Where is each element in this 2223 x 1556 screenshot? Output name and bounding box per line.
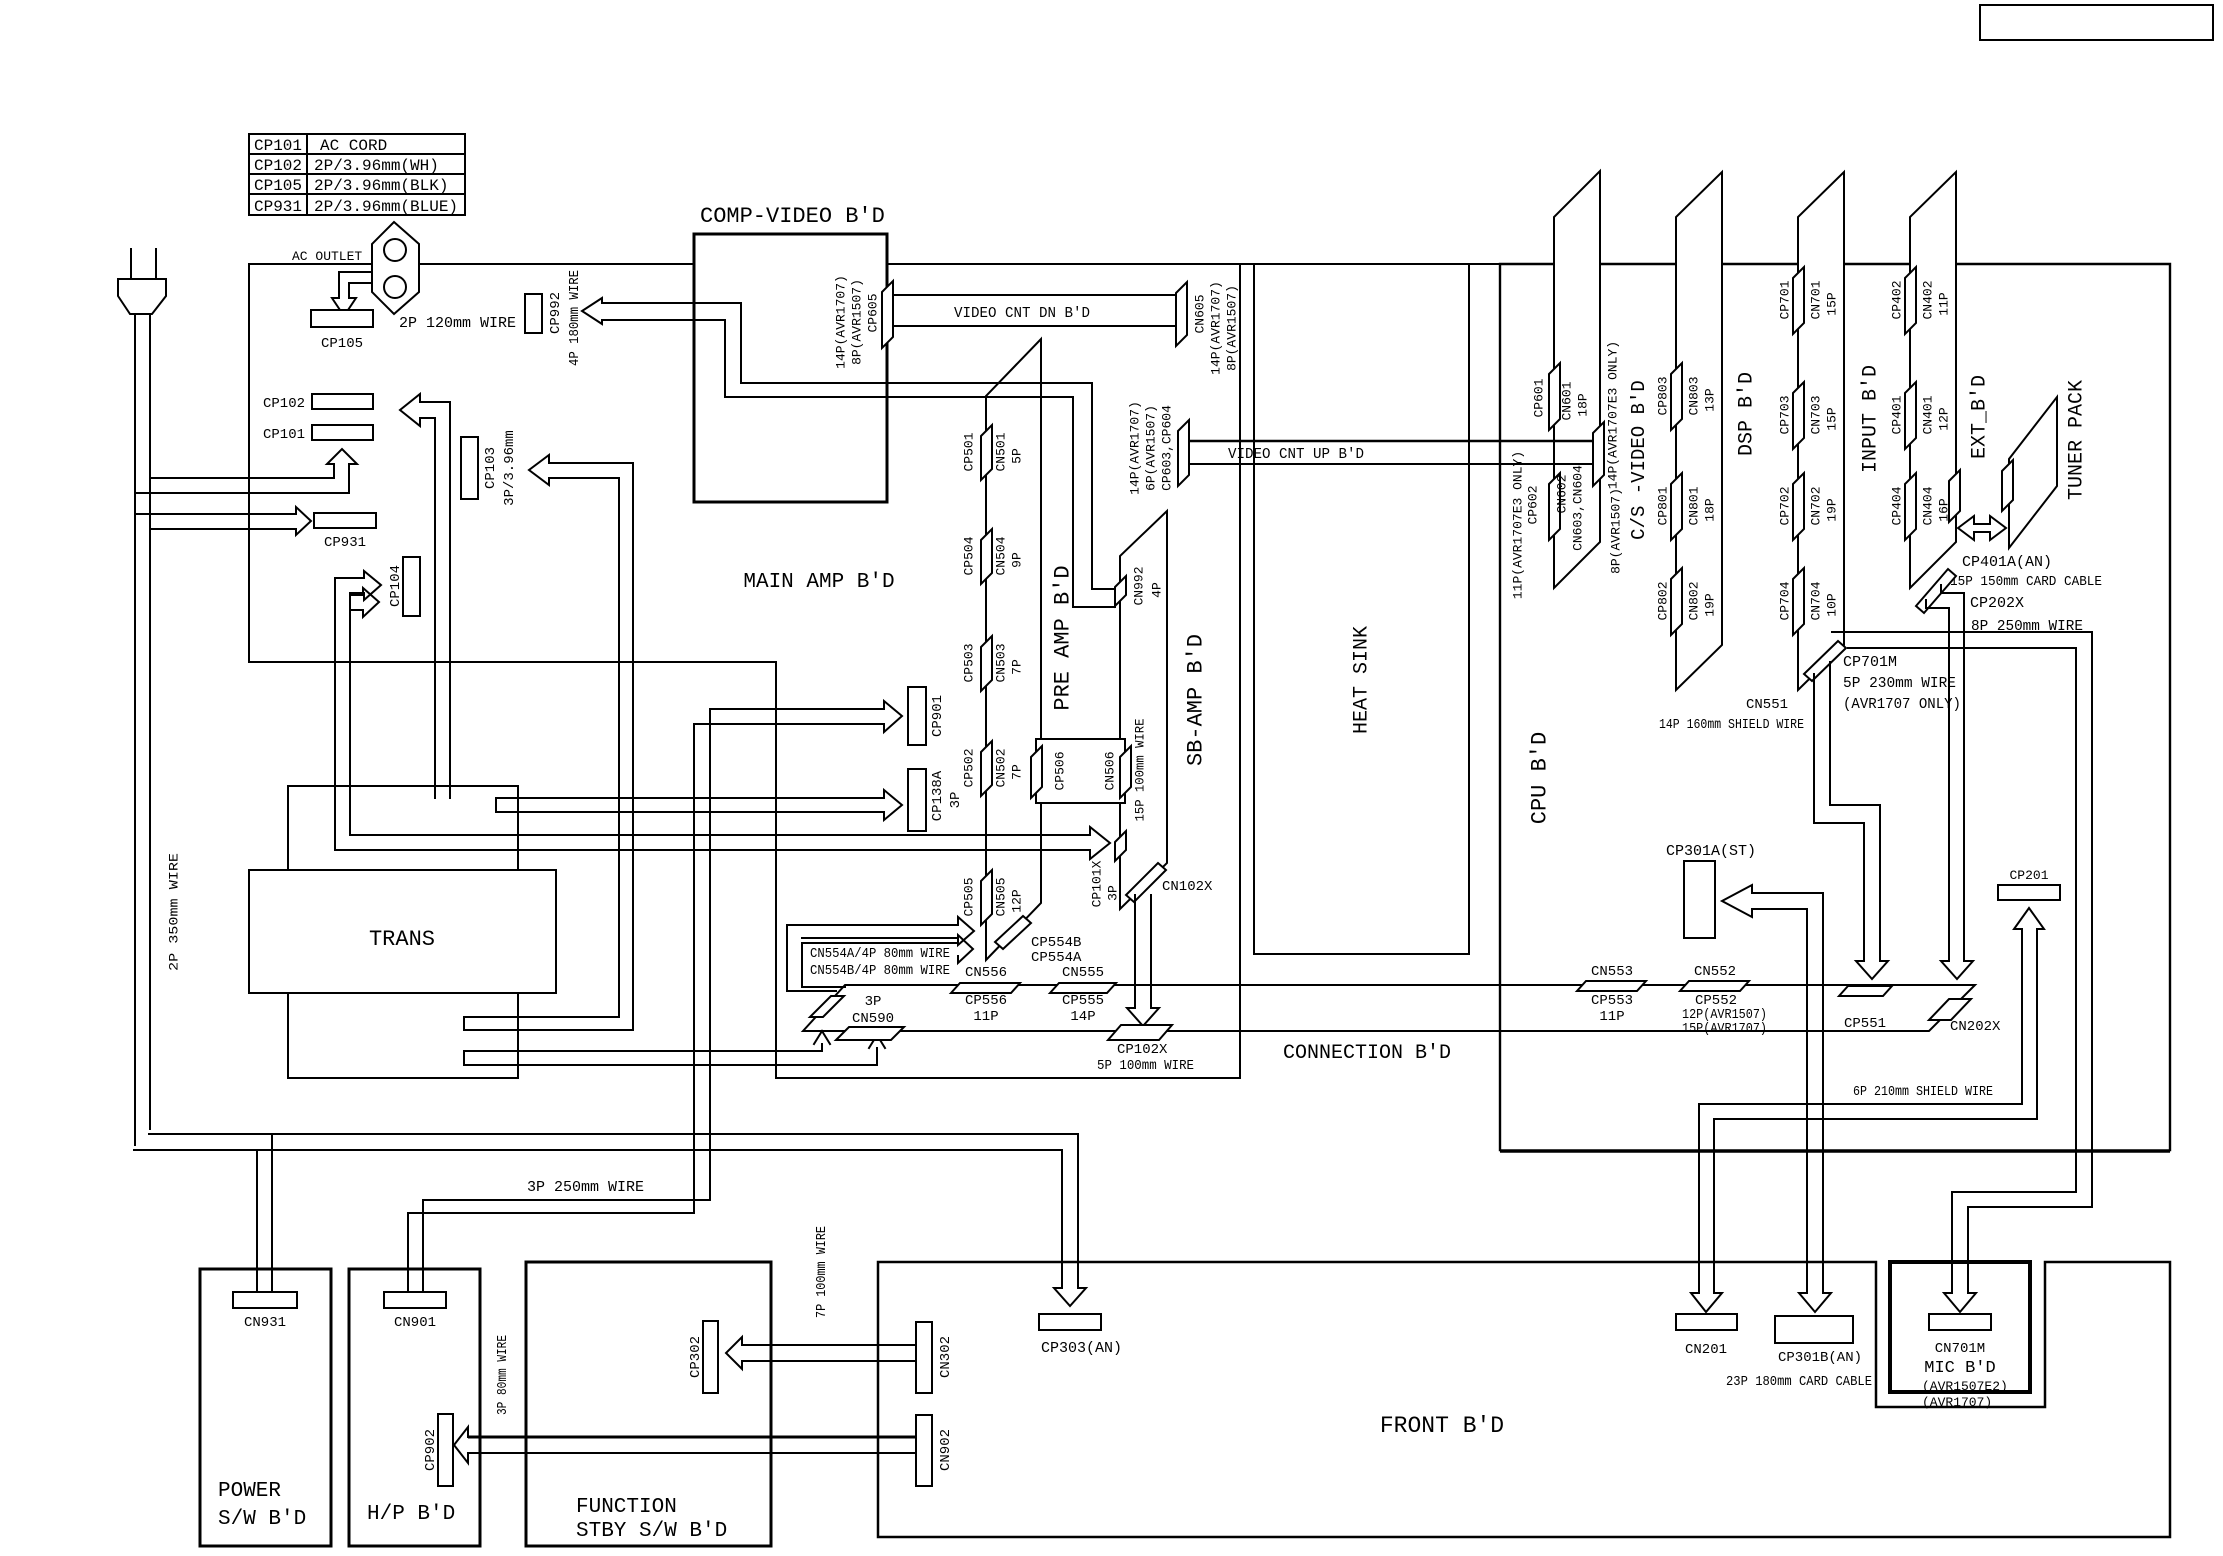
svg-text:7P 100mm WIRE: 7P 100mm WIRE [814, 1226, 830, 1318]
svg-text:9P: 9P [1010, 552, 1025, 568]
connector CP302 [703, 1321, 718, 1393]
svg-text:CP803: CP803 [1656, 376, 1671, 415]
svg-text:3P 80mm WIRE: 3P 80mm WIRE [495, 1335, 511, 1415]
connector CN555 [1050, 983, 1116, 993]
AC outlet symbol [372, 222, 419, 314]
connector tab CN605 [1176, 282, 1187, 346]
box title corner [1980, 5, 2213, 40]
svg-text:CN552: CN552 [1694, 964, 1736, 980]
svg-text:AC CORD: AC CORD [320, 137, 387, 155]
svg-text:AC OUTLET: AC OUTLET [292, 249, 362, 264]
svg-text:CN803: CN803 [1687, 376, 1702, 415]
svg-text:CP602: CP602 [1526, 485, 1541, 524]
arrow head at CP103 [529, 455, 549, 485]
wire to CP101X [335, 578, 1090, 850]
svg-text:CP931: CP931 [254, 198, 302, 216]
svg-text:CP503: CP503 [962, 643, 977, 682]
connector block CP506/CN506 [1036, 739, 1125, 803]
svg-text:7P: 7P [1010, 659, 1025, 675]
svg-text:SB-AMP B'D: SB-AMP B'D [1184, 634, 1209, 766]
svg-text:15P: 15P [1825, 407, 1840, 431]
connector CP301B(AN) [1775, 1316, 1853, 1343]
connector CP504/CN504 [981, 529, 992, 584]
connector CP802/CN802 [1671, 568, 1682, 635]
arrow head at CP138A [496, 790, 902, 820]
svg-text:CN502: CN502 [994, 748, 1009, 787]
arrow to CP104 upper [335, 571, 381, 600]
svg-text:14P(AVR1707): 14P(AVR1707) [1209, 281, 1224, 375]
board TUNER PACK [2009, 397, 2057, 548]
arrow outlet to CP105 [332, 272, 371, 316]
svg-text:8P(AVR1507): 8P(AVR1507) [1609, 488, 1624, 574]
wire CN554 to CP554 [787, 917, 974, 945]
svg-text:6P(AVR1507): 6P(AVR1507) [1144, 405, 1159, 491]
connector CP102X [1108, 1025, 1172, 1040]
svg-text:CN702: CN702 [1809, 486, 1824, 525]
svg-text:CP505: CP505 [962, 877, 977, 916]
svg-text:CN992: CN992 [1132, 566, 1147, 605]
connector CN701M [1929, 1314, 1991, 1330]
svg-text:13P: 13P [1703, 388, 1718, 412]
connector CP992 [525, 294, 542, 333]
svg-text:14P(AVR1707): 14P(AVR1707) [834, 275, 849, 369]
wire AC main bus y264 [249, 263, 2170, 265]
connector CN931 [233, 1292, 297, 1308]
connector CN202X [1929, 999, 1971, 1020]
svg-text:8P(AVR1507): 8P(AVR1507) [1225, 285, 1240, 371]
svg-text:CP138A: CP138A [930, 770, 946, 821]
arrow head at CP301B [1799, 1293, 1831, 1312]
svg-text:CN554B/4P 80mm WIRE: CN554B/4P 80mm WIRE [810, 963, 950, 979]
svg-text:2P/3.96mm(BLUE): 2P/3.96mm(BLUE) [314, 198, 458, 216]
svg-text:STBY S/W B'D: STBY S/W B'D [576, 1520, 727, 1543]
svg-text:8P(AVR1507): 8P(AVR1507) [850, 279, 865, 365]
svg-text:CN590: CN590 [852, 1011, 894, 1027]
svg-text:CP101: CP101 [263, 427, 305, 443]
arrow head at CN201 [1691, 1293, 1722, 1312]
connector EXT bottom [1916, 569, 1956, 613]
connector CP704/CN704 [1793, 568, 1804, 635]
svg-text:3P: 3P [1106, 885, 1121, 901]
svg-text:CP554B: CP554B [1031, 935, 1081, 951]
svg-text:CN554A/4P 80mm WIRE: CN554A/4P 80mm WIRE [810, 946, 950, 962]
wire CP302-CN302 [742, 1344, 916, 1346]
svg-text:2P/3.96mm(BLK): 2P/3.96mm(BLK) [314, 177, 448, 195]
arrow head at CP301A [1722, 885, 1752, 917]
svg-text:CP301A(ST): CP301A(ST) [1666, 843, 1756, 860]
AC plug [130, 248, 132, 279]
svg-text:CP551: CP551 [1844, 1016, 1886, 1032]
svg-text:11P: 11P [1937, 292, 1952, 316]
svg-text:MAIN AMP B'D: MAIN AMP B'D [743, 571, 894, 594]
svg-text:CN501: CN501 [994, 432, 1009, 471]
svg-text:3P: 3P [948, 792, 964, 809]
connector CP602/CN602 [1549, 473, 1560, 540]
svg-text:CN555: CN555 [1062, 965, 1104, 981]
connector tab CP605 [882, 281, 893, 348]
wire CP102-CP138A side A [400, 394, 450, 798]
svg-text:19P: 19P [1703, 593, 1718, 617]
svg-text:5P 100mm WIRE: 5P 100mm WIRE [1097, 1058, 1194, 1074]
wire CN931 stub [256, 1150, 258, 1292]
connector CP601/CN601 [1549, 363, 1560, 430]
svg-text:CP101: CP101 [254, 137, 302, 155]
connector CN902 [916, 1415, 932, 1486]
svg-text:CN556: CN556 [965, 965, 1007, 981]
svg-text:CP553: CP553 [1591, 993, 1633, 1009]
svg-text:14P(AVR1707E3 ONLY): 14P(AVR1707E3 ONLY) [1606, 341, 1621, 489]
board FRONT B'D [878, 1262, 2170, 1537]
svg-text:12P: 12P [1937, 407, 1952, 431]
connector CP803/CN803 [1671, 363, 1682, 430]
svg-text:3P 250mm WIRE: 3P 250mm WIRE [527, 1179, 644, 1196]
svg-text:CP102: CP102 [254, 157, 302, 175]
svg-text:CN404: CN404 [1921, 486, 1936, 525]
svg-text:CN901: CN901 [394, 1315, 436, 1331]
board CONNECTION B'D strip [803, 985, 1975, 1031]
board INPUT B'D [1798, 172, 1844, 690]
svg-text:23P 180mm CARD CABLE: 23P 180mm CARD CABLE [1726, 1374, 1872, 1390]
svg-text:18P: 18P [1703, 498, 1718, 522]
wire 23P card cable [1752, 893, 1823, 1293]
svg-text:CP302: CP302 [688, 1336, 704, 1378]
svg-text:CP931: CP931 [324, 535, 366, 551]
connector CN102X [1126, 863, 1166, 902]
svg-text:HEAT SINK: HEAT SINK [1351, 626, 1374, 734]
svg-text:CP556: CP556 [965, 993, 1007, 1009]
board PRE AMP B'D [986, 339, 1041, 960]
svg-text:CP901: CP901 [930, 695, 946, 737]
svg-text:CN506: CN506 [1103, 751, 1118, 790]
svg-text:CP802: CP802 [1656, 581, 1671, 620]
svg-text:CP702: CP702 [1778, 486, 1793, 525]
connector CP103 [461, 437, 478, 499]
svg-text:11P(AVR1707E3 ONLY): 11P(AVR1707E3 ONLY) [1511, 451, 1526, 599]
connector CP551 [1839, 986, 1892, 996]
svg-text:CP701M: CP701M [1843, 654, 1897, 671]
svg-text:DSP B'D: DSP B'D [1736, 372, 1759, 456]
connector CP303(AN) [1039, 1314, 1101, 1330]
wire CN901-CP901 [408, 709, 884, 1292]
svg-text:CP301B(AN): CP301B(AN) [1778, 1350, 1862, 1366]
svg-text:CN302: CN302 [938, 1336, 954, 1378]
svg-text:CP404: CP404 [1890, 486, 1905, 525]
svg-text:CP902: CP902 [423, 1429, 439, 1471]
svg-text:TUNER PACK: TUNER PACK [2066, 380, 2089, 500]
svg-text:11P: 11P [1599, 1009, 1624, 1025]
svg-text:14P: 14P [1070, 1009, 1095, 1025]
connector CP105 [311, 310, 373, 327]
svg-text:CP992: CP992 [548, 292, 564, 334]
board COMP-VIDEO B'D [694, 234, 887, 502]
svg-text:PRE AMP B'D: PRE AMP B'D [1051, 565, 1076, 710]
board POWER S/W B'D [200, 1269, 331, 1546]
board MAIN AMP B'D [249, 264, 776, 662]
wire CP902-CN902 [468, 1436, 916, 1439]
wire CP701M [1832, 632, 2092, 1293]
svg-text:(AVR1707): (AVR1707) [1922, 1395, 1992, 1410]
wire TRANS-CN590 [464, 1044, 877, 1065]
svg-text:CP105: CP105 [254, 177, 302, 195]
svg-text:CP102: CP102 [263, 396, 305, 412]
svg-text:VIDEO CNT UP B'D: VIDEO CNT UP B'D [1228, 446, 1364, 463]
svg-text:CN603,CN604: CN603,CN604 [1571, 465, 1586, 551]
svg-text:TRANS: TRANS [369, 927, 435, 952]
svg-text:19P: 19P [1825, 498, 1840, 522]
svg-text:4P: 4P [1150, 582, 1165, 598]
svg-text:6P 210mm SHIELD WIRE: 6P 210mm SHIELD WIRE [1853, 1084, 1993, 1100]
connector tab CP603 CP604 [1178, 420, 1189, 486]
svg-text:14P 160mm SHIELD WIRE: 14P 160mm SHIELD WIRE [1659, 717, 1804, 733]
svg-text:CN701: CN701 [1809, 280, 1824, 319]
svg-text:2P 350mm WIRE: 2P 350mm WIRE [167, 853, 182, 971]
svg-text:CN553: CN553 [1591, 964, 1633, 980]
svg-text:CN601: CN601 [1560, 381, 1575, 420]
svg-text:(AVR1707 ONLY): (AVR1707 ONLY) [1843, 696, 1961, 713]
arrow head at CP101X [1090, 827, 1110, 859]
connector CP101 [312, 425, 373, 440]
connector CP801/CN801 [1671, 473, 1682, 540]
svg-text:CP605: CP605 [866, 293, 881, 332]
wire 7P 100mm [776, 662, 1240, 1078]
arrow head at CP303 [1054, 1288, 1086, 1306]
connector CP102 [312, 394, 373, 409]
arrow head CN590 A [814, 1031, 830, 1044]
svg-text:10P: 10P [1825, 593, 1840, 617]
connector CP902 [438, 1414, 453, 1486]
svg-text:C/S -VIDEO B'D: C/S -VIDEO B'D [1628, 380, 1650, 540]
wire VIDEO CNT DN pair [892, 294, 1178, 296]
board CPU B'D [1500, 264, 2170, 1150]
arrow head CN590 B [869, 1035, 885, 1048]
svg-text:CP402: CP402 [1890, 280, 1905, 319]
connector tab CN603/CN604 [1593, 422, 1604, 486]
arrow head at CN701M [1944, 1293, 1976, 1312]
svg-text:CN551: CN551 [1746, 697, 1788, 713]
connector CN992 [1115, 576, 1126, 606]
wire VIDEO CNT UP pair [1189, 440, 1598, 443]
connector CP402/CN402 [1905, 267, 1916, 334]
svg-text:CP554A: CP554A [1031, 950, 1082, 966]
connector CN901 [384, 1292, 446, 1308]
board SB-AMP B'D [1120, 511, 1167, 909]
arrow up to CP101 [135, 449, 357, 493]
svg-text:CPU B'D: CPU B'D [1528, 732, 1553, 824]
svg-text:CN605: CN605 [1193, 294, 1208, 333]
connector CN302 [916, 1322, 932, 1393]
svg-text:CP401A(AN): CP401A(AN) [1962, 554, 2052, 571]
arrow head at CP902 [454, 1427, 468, 1463]
svg-text:CP701: CP701 [1778, 280, 1793, 319]
connector CP703/CN703 [1793, 382, 1804, 449]
svg-text:VIDEO CNT DN B'D: VIDEO CNT DN B'D [954, 305, 1090, 322]
wire CP202X [1926, 585, 1964, 961]
svg-text:CP501: CP501 [962, 432, 977, 471]
svg-text:CP504: CP504 [962, 536, 977, 575]
board FUNCTION STBY S/W B'D [526, 1262, 771, 1546]
connector CP503/CN503 [981, 636, 992, 691]
svg-text:CP103: CP103 [483, 447, 499, 489]
svg-text:CN504: CN504 [994, 536, 1009, 575]
connector CP301A(ST) [1684, 861, 1715, 938]
svg-text:15P(AVR1707): 15P(AVR1707) [1682, 1021, 1767, 1037]
svg-text:3P: 3P [865, 994, 882, 1010]
board EXT_B'D [1910, 172, 1956, 588]
svg-text:CP102X: CP102X [1117, 1042, 1168, 1058]
svg-text:CN703: CN703 [1809, 395, 1824, 434]
svg-text:CN902: CN902 [938, 1429, 954, 1471]
connector tab TUNER left [2002, 460, 2013, 511]
connector CN551 [1804, 641, 1846, 681]
board C/S-VIDEO B'D [1554, 171, 1600, 588]
svg-text:CN202X: CN202X [1950, 1019, 2001, 1035]
svg-text:18P: 18P [1576, 393, 1591, 417]
arrow head CP202X wire [1941, 961, 1973, 979]
board HEAT SINK [1254, 264, 1469, 954]
arrow double EXT-TUNER [1958, 516, 2006, 540]
svg-text:COMP-VIDEO B'D: COMP-VIDEO B'D [700, 204, 885, 229]
connector CP104 [403, 557, 420, 616]
wire CP303 feed [134, 1134, 1078, 1288]
svg-text:CP502: CP502 [962, 748, 977, 787]
svg-text:CN505: CN505 [994, 877, 1009, 916]
svg-text:15P 150mm CARD CABLE: 15P 150mm CARD CABLE [1950, 574, 2102, 590]
connector CP138A [908, 769, 926, 831]
arrow head at CP302 [726, 1337, 742, 1369]
svg-text:CN802: CN802 [1687, 581, 1702, 620]
wire plug lead A [134, 314, 136, 1146]
svg-text:CP104: CP104 [388, 565, 404, 607]
svg-text:CP603,CP604: CP603,CP604 [1160, 405, 1175, 491]
svg-text:CP303(AN): CP303(AN) [1041, 1340, 1122, 1357]
board TRANS [249, 870, 556, 993]
svg-text:CN201: CN201 [1685, 1342, 1727, 1358]
wire CN551 shield [1814, 662, 1880, 961]
svg-text:EXT_B'D: EXT_B'D [1969, 375, 1992, 459]
svg-text:CN401: CN401 [1921, 395, 1936, 434]
connector CN553 [1577, 981, 1646, 991]
connector CP502/CN502 [981, 741, 992, 796]
connector CP505/CN505 [981, 870, 992, 925]
svg-text:INPUT B'D: INPUT B'D [1860, 365, 1883, 473]
svg-text:CP555: CP555 [1062, 993, 1104, 1009]
connector CP101X [1115, 831, 1126, 861]
arrow right to CP931 [135, 507, 311, 535]
board MIC B'D [1890, 1262, 2030, 1392]
svg-text:CN402: CN402 [1921, 280, 1936, 319]
connector CP701/CN701 [1793, 267, 1804, 334]
svg-text:15P 100mm WIRE: 15P 100mm WIRE [1133, 718, 1148, 821]
connector CP201 [1998, 885, 2060, 900]
svg-text:CP201: CP201 [2009, 868, 2048, 883]
svg-text:14P(AVR1707): 14P(AVR1707) [1128, 401, 1143, 495]
svg-text:CN801: CN801 [1687, 486, 1702, 525]
svg-text:FUNCTION: FUNCTION [576, 1496, 677, 1519]
arrow head at CP901 [884, 701, 902, 732]
wire vertical x1240 [1239, 264, 1241, 1078]
connector tab EXT right [1949, 470, 1960, 522]
connector CP901 [908, 687, 926, 745]
svg-text:S/W B'D: S/W B'D [218, 1508, 306, 1531]
connector CN590 lower [836, 1027, 904, 1040]
svg-text:CP202X: CP202X [1970, 595, 2024, 612]
svg-text:CP801: CP801 [1656, 486, 1671, 525]
svg-text:5P 230mm WIRE: 5P 230mm WIRE [1843, 675, 1956, 692]
svg-text:CP601: CP601 [1532, 378, 1547, 417]
svg-text:12P: 12P [1010, 889, 1025, 913]
svg-text:CP101X: CP101X [1090, 860, 1105, 907]
svg-text:CONNECTION B'D: CONNECTION B'D [1283, 1042, 1451, 1065]
connector CN552 [1680, 981, 1749, 991]
svg-text:2P 120mm WIRE: 2P 120mm WIRE [399, 315, 516, 332]
svg-text:2P/3.96mm(WH): 2P/3.96mm(WH) [314, 157, 439, 175]
wire plug lead B [149, 314, 151, 1130]
svg-text:CN704: CN704 [1809, 581, 1824, 620]
wire 6P shield [1699, 929, 2037, 1293]
svg-text:5P: 5P [1010, 448, 1025, 464]
connector CN201 [1676, 1314, 1737, 1330]
svg-text:CN931: CN931 [244, 1315, 286, 1331]
connector CP702/CN702 [1793, 473, 1804, 540]
arrow head at CP201 [2014, 908, 2044, 929]
connector CN590 [810, 996, 844, 1017]
svg-text:7P: 7P [1010, 764, 1025, 780]
svg-text:CN701M: CN701M [1935, 1341, 1985, 1357]
svg-text:CP506: CP506 [1053, 751, 1068, 790]
box TRANS outer [288, 786, 518, 1078]
arrow to CP104 lower [350, 588, 379, 617]
svg-text:4P 180mm WIRE: 4P 180mm WIRE [567, 270, 583, 366]
svg-text:(AVR1507E2): (AVR1507E2) [1922, 1379, 2008, 1394]
svg-text:FRONT B'D: FRONT B'D [1380, 1413, 1504, 1439]
wire TRANS-CP103 [464, 463, 633, 1030]
svg-text:MIC B'D: MIC B'D [1924, 1359, 1995, 1378]
svg-text:CN102X: CN102X [1162, 879, 1213, 895]
connector CP404/CN404 [1905, 473, 1916, 540]
svg-text:H/P B'D: H/P B'D [367, 1503, 455, 1526]
svg-text:CP704: CP704 [1778, 581, 1793, 620]
svg-text:CP703: CP703 [1778, 395, 1793, 434]
connector CP501/CN501 [981, 425, 992, 480]
svg-text:CP105: CP105 [321, 336, 363, 352]
connector CP401/CN401 [1905, 382, 1916, 449]
connector CP931 [314, 513, 376, 528]
svg-text:CN602: CN602 [1555, 474, 1570, 513]
arrow head at CP102X [1127, 1008, 1159, 1026]
svg-text:15P: 15P [1825, 292, 1840, 316]
svg-text:CP401: CP401 [1890, 395, 1905, 434]
board H/P B'D [349, 1269, 480, 1546]
wire CP992-COMP-CN992 [582, 298, 1115, 607]
wire CN102X-CP102X [1135, 895, 1151, 1008]
board DSP B'D [1676, 172, 1722, 690]
svg-text:POWER: POWER [218, 1480, 281, 1503]
connector CN556 [951, 983, 1020, 993]
svg-text:11P: 11P [973, 1009, 998, 1025]
svg-text:CN503: CN503 [994, 643, 1009, 682]
arrow head CN551 wire [1856, 961, 1888, 979]
svg-text:3P/3.96mm: 3P/3.96mm [502, 430, 518, 506]
connector CP554A/B [995, 916, 1031, 949]
table connector legend [249, 134, 465, 215]
